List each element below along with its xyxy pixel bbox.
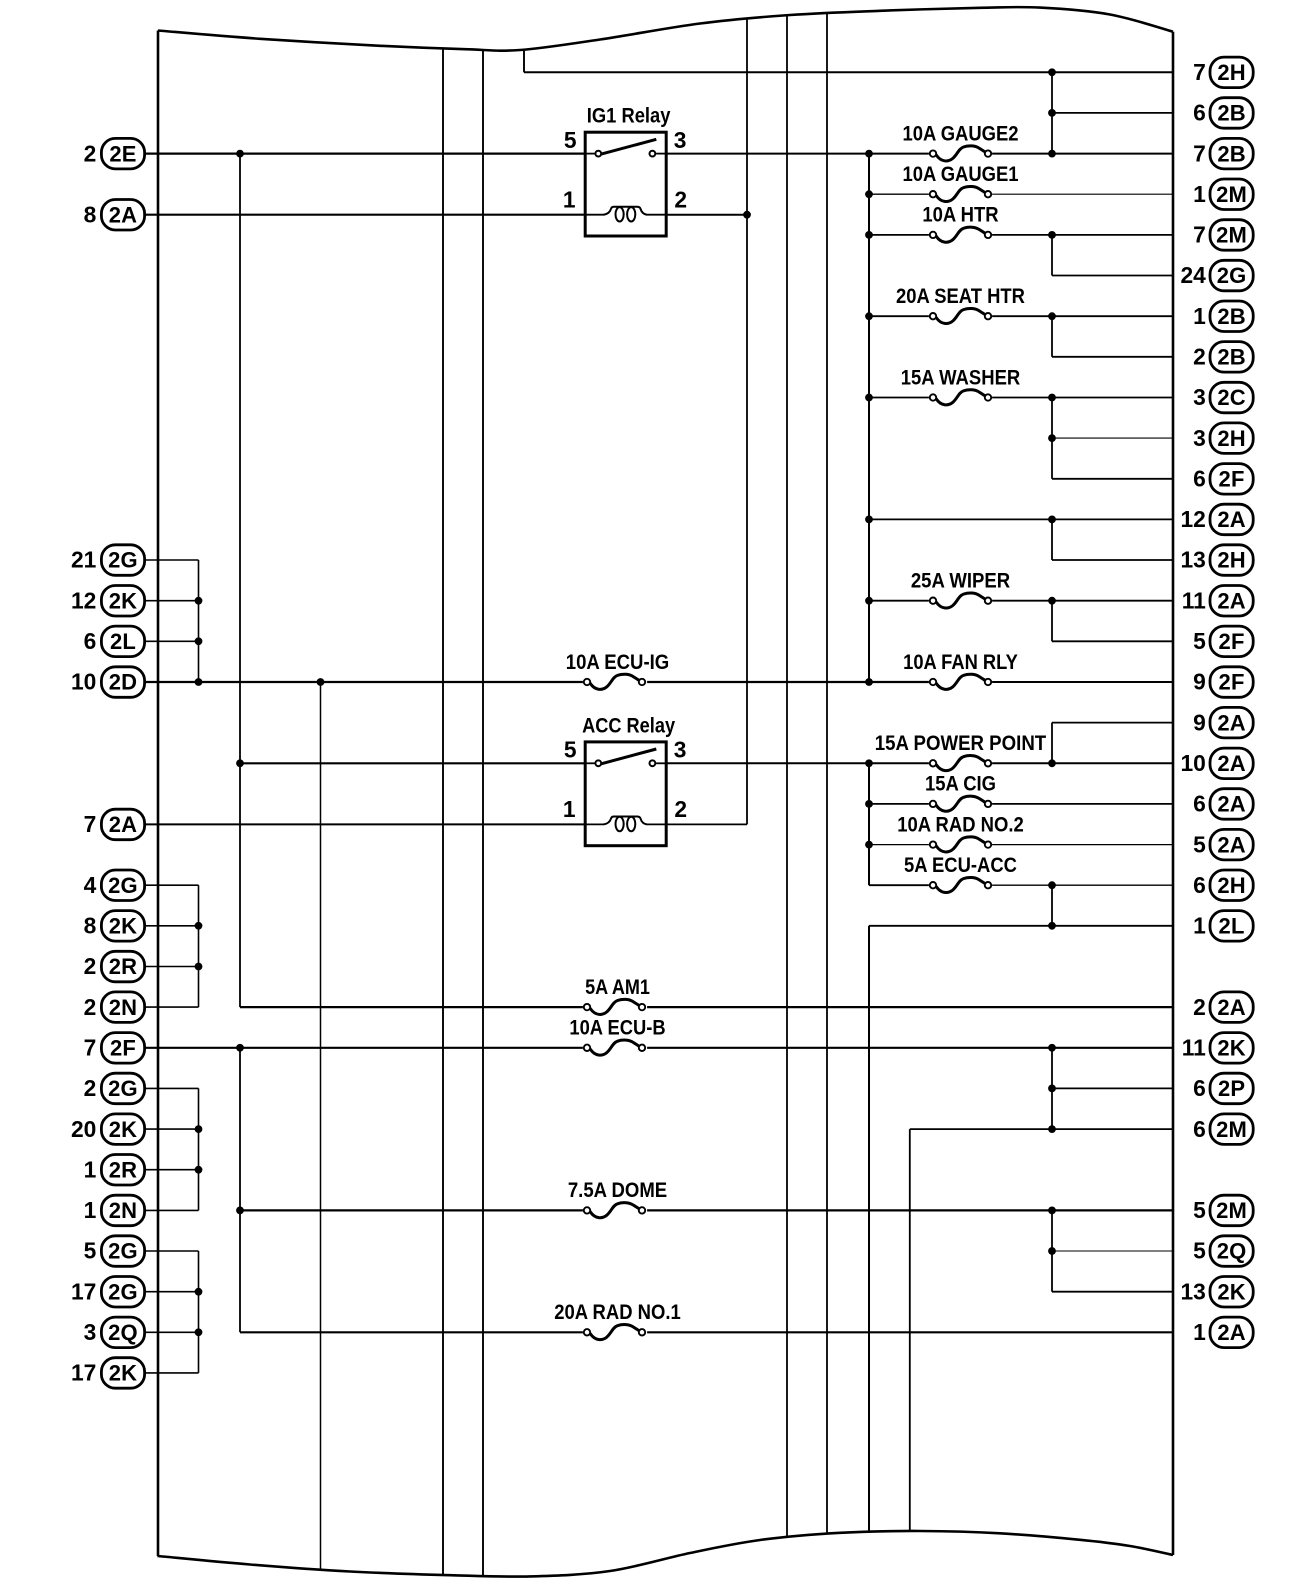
svg-text:13: 13 bbox=[1180, 547, 1205, 573]
junction 12 2A feed bbox=[865, 516, 873, 524]
relay ACC U2 bbox=[563, 713, 687, 845]
connector 1 2L right bbox=[1193, 911, 1253, 942]
svg-text:8: 8 bbox=[84, 201, 97, 227]
wire right bracket 9 2A/10 2A bbox=[1051, 723, 1053, 764]
fuse 20A SEAT HTR bbox=[896, 284, 1025, 324]
wire row 5 2F bbox=[1052, 640, 1173, 642]
connector 11 2K right bbox=[1182, 1033, 1254, 1064]
wire stub 17 2G bbox=[145, 1291, 199, 1293]
wire ACC fuse feed bus x=869 bbox=[868, 763, 870, 885]
wire right bracket 7 2H/6 2B/7 2B bbox=[1051, 72, 1053, 153]
wire stub 20 2K bbox=[145, 1128, 199, 1130]
connector 9 2F right bbox=[1193, 667, 1253, 698]
wire 1 2L off-page drop x=869 bbox=[868, 926, 870, 1532]
svg-text:17: 17 bbox=[71, 1360, 96, 1386]
connector 13 2K right bbox=[1180, 1277, 1253, 1308]
wire stub 2 2R bbox=[145, 966, 199, 968]
wire pass-through bus x=443 bbox=[442, 49, 444, 1576]
svg-text:5A AM1: 5A AM1 bbox=[585, 975, 650, 999]
junction 2E row / battery bus bbox=[236, 150, 244, 158]
junction 20 2K bracket bbox=[195, 1125, 203, 1133]
wire right bracket 7 2M/24 2G bbox=[1051, 235, 1053, 276]
connector 10 2A right bbox=[1180, 748, 1253, 779]
wire row 7 2A to ACC relay pin 1 bbox=[145, 823, 586, 825]
wire relay coil return bus x=747 bbox=[746, 18, 748, 824]
junction ECU-B feed tap bbox=[236, 1044, 244, 1052]
wire feed to 10A RAD NO.2 fuse bbox=[869, 844, 929, 846]
connector 1 2M right bbox=[1193, 179, 1253, 210]
svg-text:6: 6 bbox=[1193, 466, 1206, 492]
connector 5 2F right bbox=[1193, 626, 1253, 657]
junction 5 2Q row bbox=[1048, 1247, 1056, 1255]
wire feed drop x=524 for 7 2H row bbox=[523, 50, 525, 73]
svg-text:9: 9 bbox=[1193, 669, 1206, 695]
junction 3 2H row bbox=[1048, 434, 1056, 442]
svg-text:6: 6 bbox=[1193, 100, 1206, 126]
svg-text:20A SEAT HTR: 20A SEAT HTR bbox=[896, 284, 1025, 308]
wire row 7 2H bbox=[524, 71, 1173, 73]
svg-text:13: 13 bbox=[1180, 1278, 1205, 1304]
wire row 3 2H bbox=[1052, 437, 1173, 439]
svg-text:1: 1 bbox=[1193, 913, 1206, 939]
connector 1 2N left bbox=[84, 1195, 145, 1226]
svg-text:2G: 2G bbox=[108, 548, 138, 573]
svg-text:12: 12 bbox=[71, 587, 96, 613]
junction 1 2B row bbox=[1048, 312, 1056, 320]
svg-text:3: 3 bbox=[674, 127, 687, 153]
connector 1 2A right bbox=[1193, 1317, 1253, 1348]
wire 6 2M off-page drop x=910 bbox=[909, 1129, 911, 1531]
svg-text:2M: 2M bbox=[1216, 223, 1247, 248]
svg-text:2H: 2H bbox=[1217, 873, 1246, 898]
junction 6 2P row bbox=[1048, 1085, 1056, 1093]
relay IG1 U1 bbox=[563, 104, 687, 236]
wire IG1 pin 3 to 10A GAUGE2 fuse bbox=[666, 153, 929, 155]
wire 15A POWER POINT output to 10 2A bbox=[992, 762, 1173, 764]
wire left bracket 4 2G/8 2K/2 2R/2 2N bbox=[198, 885, 200, 1007]
connector 1 2R left bbox=[84, 1155, 145, 1186]
svg-text:10A FAN RLY: 10A FAN RLY bbox=[903, 650, 1018, 674]
wire left frame edge bbox=[157, 31, 160, 1557]
connector 8 2A left bbox=[84, 200, 145, 231]
wire feed to 25A WIPER fuse bbox=[869, 600, 929, 602]
wire row 6 2M bbox=[910, 1128, 1173, 1130]
svg-text:2: 2 bbox=[84, 994, 97, 1020]
svg-text:2G: 2G bbox=[108, 1239, 138, 1264]
wire ACC pin 3 to 15A POWER POINT fuse bbox=[666, 762, 929, 764]
wire feed to 20A SEAT HTR fuse bbox=[869, 315, 929, 317]
wire stub 3 2Q bbox=[145, 1331, 199, 1333]
svg-text:1: 1 bbox=[84, 1156, 97, 1182]
wire IG1 pin 2 to coil return bus bbox=[666, 214, 747, 216]
wire row 6 2B bbox=[1052, 112, 1173, 114]
junction 17 2G bracket bbox=[195, 1288, 203, 1296]
junction 6 2L bracket bbox=[195, 637, 203, 645]
svg-text:2A: 2A bbox=[1217, 832, 1246, 857]
svg-text:21: 21 bbox=[71, 547, 97, 573]
svg-text:5: 5 bbox=[84, 1238, 97, 1264]
fuse 15A WASHER bbox=[901, 365, 1021, 405]
junction 1 2L row bbox=[1048, 922, 1056, 930]
junction 12 2A row bbox=[1048, 516, 1056, 524]
wire 15A CIG output to 6 2A bbox=[992, 803, 1173, 805]
svg-text:2K: 2K bbox=[1217, 1279, 1246, 1304]
svg-text:1: 1 bbox=[84, 1197, 97, 1223]
svg-text:2E: 2E bbox=[109, 141, 136, 166]
junction DOME feed tap bbox=[236, 1207, 244, 1215]
svg-text:5A ECU-ACC: 5A ECU-ACC bbox=[904, 853, 1017, 877]
svg-text:1: 1 bbox=[1193, 1319, 1206, 1345]
wire top wavy border bbox=[158, 7, 1173, 51]
fuse 15A CIG bbox=[925, 772, 996, 812]
svg-text:7.5A DOME: 7.5A DOME bbox=[568, 1178, 667, 1202]
connector 3 2Q left bbox=[84, 1317, 145, 1348]
svg-text:10A HTR: 10A HTR bbox=[922, 203, 999, 227]
svg-text:7: 7 bbox=[84, 1035, 97, 1061]
wire row 12 2A bbox=[869, 518, 1173, 520]
wire 10A FAN RLY output to 9 2F bbox=[992, 681, 1173, 683]
svg-text:2F: 2F bbox=[1219, 629, 1245, 654]
svg-text:2R: 2R bbox=[109, 954, 138, 979]
svg-text:2L: 2L bbox=[1219, 914, 1245, 939]
junction 6 2B row bbox=[1048, 109, 1056, 117]
svg-text:2A: 2A bbox=[1217, 507, 1246, 532]
connector 2 2B right bbox=[1193, 342, 1253, 373]
connector 12 2A right bbox=[1180, 504, 1253, 535]
svg-text:7: 7 bbox=[1193, 59, 1206, 85]
junction 10 2D bracket bbox=[195, 678, 203, 686]
wire row 2 2E to IG1 relay pin 5 bbox=[145, 153, 586, 155]
wire right bracket 12 2A/13 2H bbox=[1051, 519, 1053, 560]
wire battery feed to 20A RAD NO.1 fuse bbox=[240, 1331, 583, 1333]
wire row 8 2A to IG1 relay pin 1 bbox=[145, 214, 586, 216]
svg-text:10A GAUGE2: 10A GAUGE2 bbox=[902, 121, 1018, 145]
wire bottom wavy border bbox=[158, 1531, 1174, 1577]
connector 7 2F left bbox=[84, 1033, 145, 1064]
connector 3 2C right bbox=[1193, 382, 1253, 413]
svg-text:2M: 2M bbox=[1216, 1117, 1247, 1142]
svg-text:2F: 2F bbox=[110, 1036, 136, 1061]
svg-text:2R: 2R bbox=[109, 1157, 138, 1182]
connector 7 2M right bbox=[1193, 220, 1253, 251]
svg-text:4: 4 bbox=[84, 872, 97, 898]
wire 10A GAUGE2 output to 7 2B bbox=[992, 153, 1173, 155]
junction 10 2A row bbox=[1048, 759, 1056, 767]
wire ACC pin 2 to coil return bus bbox=[666, 823, 747, 825]
fuse 15A POWER POINT bbox=[875, 731, 1046, 771]
junction WIPER feed bbox=[865, 597, 873, 605]
wire battery bus x=240 lower bbox=[239, 1048, 241, 1333]
svg-text:2G: 2G bbox=[108, 1076, 138, 1101]
wire row 1 2L bbox=[869, 925, 1173, 927]
svg-text:2: 2 bbox=[84, 953, 97, 979]
wire left bracket 2 2G/20 2K/1 2R/1 2N bbox=[198, 1088, 200, 1210]
svg-text:8: 8 bbox=[84, 913, 97, 939]
wire feed to 15A CIG fuse bbox=[869, 803, 929, 805]
wire stub 12 2K bbox=[145, 600, 199, 602]
svg-text:3: 3 bbox=[1193, 425, 1206, 451]
svg-text:6: 6 bbox=[1193, 791, 1206, 817]
svg-text:9: 9 bbox=[1193, 709, 1206, 735]
svg-text:20: 20 bbox=[71, 1116, 96, 1142]
svg-text:2G: 2G bbox=[1217, 263, 1247, 288]
junction SEAT HTR feed bbox=[865, 312, 873, 320]
connector 2 2G left bbox=[84, 1073, 145, 1104]
connector 7 2B right bbox=[1193, 138, 1253, 169]
junction 1 2R bracket bbox=[195, 1166, 203, 1174]
wire pass-through bus x=827 bbox=[826, 13, 828, 1534]
junction 7 2M row bbox=[1048, 231, 1056, 239]
svg-text:2P: 2P bbox=[1218, 1076, 1245, 1101]
svg-text:20A RAD NO.1: 20A RAD NO.1 bbox=[554, 1300, 681, 1324]
connector 10 2D left bbox=[71, 667, 145, 698]
fuse 20A RAD NO.1 bbox=[554, 1300, 681, 1340]
wire 10A HTR output to 7 2M bbox=[992, 234, 1173, 236]
wire feed to 15A WASHER fuse bbox=[869, 397, 929, 399]
connector 6 2H right bbox=[1193, 870, 1253, 901]
junction 3 2Q bracket bbox=[195, 1328, 203, 1336]
connector 5 2M right bbox=[1193, 1195, 1253, 1226]
wire stub 21 2G bbox=[145, 559, 199, 561]
wire stub 5 2G bbox=[145, 1250, 199, 1252]
svg-text:2H: 2H bbox=[1217, 60, 1246, 85]
wire row 9 2A bbox=[1052, 722, 1173, 724]
svg-text:2A: 2A bbox=[109, 812, 138, 837]
svg-text:2: 2 bbox=[674, 796, 687, 822]
connector 11 2A right bbox=[1182, 586, 1254, 617]
wire left bracket 21 2G/12 2K/6 2L/10 2D bbox=[198, 560, 200, 682]
svg-text:IG1 Relay: IG1 Relay bbox=[587, 104, 671, 128]
junction IG bus tap bbox=[317, 678, 325, 686]
svg-text:10: 10 bbox=[71, 669, 96, 695]
wire battery feed to ACC relay pin 5 bbox=[240, 762, 585, 764]
svg-text:2: 2 bbox=[84, 1075, 97, 1101]
wire battery bus x=240 upper bbox=[239, 154, 241, 1008]
fuse 7.5A DOME bbox=[568, 1178, 667, 1218]
svg-text:7: 7 bbox=[1193, 222, 1206, 248]
junction fuse bus bottom bbox=[865, 678, 873, 686]
svg-text:6: 6 bbox=[1193, 872, 1206, 898]
fuse 10A FAN RLY bbox=[903, 650, 1018, 690]
junction HTR feed bbox=[865, 231, 873, 239]
svg-text:2A: 2A bbox=[1217, 1320, 1246, 1345]
connector 24 2G right bbox=[1180, 260, 1253, 291]
wire pass-through bus x=483 bbox=[482, 50, 484, 1576]
svg-text:2G: 2G bbox=[108, 873, 138, 898]
svg-text:2F: 2F bbox=[1219, 670, 1245, 695]
connector 7 2H right bbox=[1193, 57, 1253, 88]
wire IG bus x=320 to off-page bbox=[320, 682, 322, 1570]
svg-text:2: 2 bbox=[84, 140, 97, 166]
svg-text:2N: 2N bbox=[109, 1198, 138, 1223]
svg-text:11: 11 bbox=[1182, 587, 1206, 613]
svg-text:10A GAUGE1: 10A GAUGE1 bbox=[902, 162, 1018, 186]
svg-text:2Q: 2Q bbox=[1217, 1239, 1247, 1264]
svg-text:24: 24 bbox=[1180, 262, 1206, 288]
svg-text:1: 1 bbox=[563, 187, 576, 213]
wire right bracket 11 2A/5 2F bbox=[1051, 601, 1053, 642]
svg-text:2A: 2A bbox=[1217, 588, 1246, 613]
junction 3 2C row bbox=[1048, 394, 1056, 402]
wire stub 2 2G bbox=[145, 1087, 199, 1089]
connector 6 2B right bbox=[1193, 98, 1253, 129]
junction 8 2K bracket bbox=[195, 922, 203, 930]
svg-text:2N: 2N bbox=[109, 995, 138, 1020]
svg-text:2A: 2A bbox=[1217, 995, 1246, 1020]
connector 2 2A right bbox=[1193, 992, 1253, 1023]
svg-text:15A WASHER: 15A WASHER bbox=[901, 365, 1021, 389]
connector 4 2G left bbox=[84, 870, 145, 901]
svg-text:2B: 2B bbox=[1217, 304, 1246, 329]
wire feed to 10A HTR fuse bbox=[869, 234, 929, 236]
connector 5 2G left bbox=[84, 1236, 145, 1267]
junction 11 2A row bbox=[1048, 597, 1056, 605]
svg-text:5: 5 bbox=[1193, 1197, 1206, 1223]
wire right bracket 5 2M/5 2Q/13 2K bbox=[1051, 1210, 1053, 1291]
svg-text:2M: 2M bbox=[1216, 1198, 1247, 1223]
wire stub 6 2L bbox=[145, 640, 199, 642]
wire feed to 10A GAUGE1 fuse bbox=[869, 193, 929, 195]
connector 2 2R left bbox=[84, 951, 145, 982]
svg-text:2A: 2A bbox=[1217, 792, 1246, 817]
connector 17 2K left bbox=[71, 1358, 145, 1389]
junction IG1 coil return bbox=[743, 211, 751, 219]
connector 5 2A right bbox=[1193, 829, 1253, 860]
wire 5A ECU-ACC output to 6 2H bbox=[992, 884, 1173, 886]
svg-text:2Q: 2Q bbox=[108, 1320, 138, 1345]
svg-text:2A: 2A bbox=[1217, 751, 1246, 776]
svg-text:10: 10 bbox=[1180, 750, 1205, 776]
connector 6 2F right bbox=[1193, 464, 1253, 495]
junction 7 2B row bbox=[1048, 150, 1056, 158]
fuse 10A RAD NO.2 bbox=[897, 812, 1024, 852]
svg-text:2K: 2K bbox=[109, 1361, 138, 1386]
svg-text:2: 2 bbox=[674, 187, 687, 213]
svg-text:2: 2 bbox=[1193, 994, 1206, 1020]
fuse 10A GAUGE2 bbox=[902, 121, 1018, 161]
wire row 2 2B bbox=[1052, 356, 1173, 358]
svg-text:25A WIPER: 25A WIPER bbox=[911, 569, 1011, 593]
junction 7 2H row bbox=[1048, 68, 1056, 76]
svg-text:10A RAD NO.2: 10A RAD NO.2 bbox=[897, 812, 1024, 836]
connector 12 2K left bbox=[71, 586, 145, 617]
svg-text:5: 5 bbox=[1193, 628, 1206, 654]
svg-text:2K: 2K bbox=[1217, 1036, 1246, 1061]
svg-text:2G: 2G bbox=[108, 1279, 138, 1304]
wire right bracket 11 2K/6 2P/6 2M bbox=[1051, 1048, 1053, 1129]
wire 7.5A DOME output to 5 2M bbox=[647, 1209, 1173, 1211]
wire row 5 2Q bbox=[1052, 1250, 1173, 1252]
svg-text:2H: 2H bbox=[1217, 426, 1246, 451]
junction ACC feed tap bbox=[236, 759, 244, 767]
fuse 10A GAUGE1 bbox=[902, 162, 1018, 202]
fuse 5A AM1 bbox=[584, 975, 650, 1015]
wire row 10 2D to 10A ECU-IG fuse bbox=[145, 681, 583, 683]
wire right bracket 3 2C/3 2H/6 2F bbox=[1051, 398, 1053, 479]
connector 17 2G left bbox=[71, 1277, 145, 1308]
wire 20A RAD NO.1 output to 1 2A bbox=[647, 1331, 1173, 1333]
connector 1 2B right bbox=[1193, 301, 1253, 332]
svg-text:2C: 2C bbox=[1217, 385, 1246, 410]
svg-text:6: 6 bbox=[84, 628, 97, 654]
svg-text:6: 6 bbox=[1193, 1116, 1206, 1142]
svg-text:2: 2 bbox=[1193, 344, 1206, 370]
junction 6 2M row bbox=[1048, 1125, 1056, 1133]
junction 5 2M row bbox=[1048, 1207, 1056, 1215]
wire left bracket 5 2G/17 2G/3 2Q/17 2K bbox=[198, 1251, 200, 1373]
connector 2 2E left bbox=[84, 138, 145, 169]
wire pass-through bus x=787 bbox=[786, 15, 788, 1537]
fuse 10A ECU-B bbox=[569, 1016, 665, 1056]
svg-text:5: 5 bbox=[1193, 831, 1206, 857]
wire battery feed to 5A AM1 fuse bbox=[240, 1006, 583, 1008]
svg-text:5: 5 bbox=[564, 737, 577, 763]
svg-text:15A POWER POINT: 15A POWER POINT bbox=[875, 731, 1046, 755]
svg-text:2L: 2L bbox=[110, 629, 136, 654]
junction RAD NO.2 feed bbox=[865, 841, 873, 849]
connector 9 2A right bbox=[1193, 707, 1253, 738]
wire battery feed to 7.5A DOME fuse bbox=[240, 1209, 583, 1211]
junction 11 2K row bbox=[1048, 1044, 1056, 1052]
wire 10A RAD NO.2 output to 5 2A bbox=[992, 844, 1173, 846]
connector 13 2H right bbox=[1180, 545, 1253, 576]
wire stub 1 2R bbox=[145, 1169, 199, 1171]
svg-text:7: 7 bbox=[1193, 140, 1206, 166]
svg-text:10A ECU-IG: 10A ECU-IG bbox=[566, 650, 670, 674]
wire feed to 5A ECU-ACC fuse bbox=[869, 884, 929, 886]
junction GAUGE1 feed bbox=[865, 190, 873, 198]
connector 6 2P right bbox=[1193, 1073, 1253, 1104]
svg-text:2B: 2B bbox=[1217, 345, 1246, 370]
wire row 7 2F to 10A ECU-B fuse bbox=[145, 1047, 583, 1049]
svg-text:1: 1 bbox=[563, 796, 576, 822]
connector 5 2Q right bbox=[1193, 1236, 1253, 1267]
svg-text:6: 6 bbox=[1193, 1075, 1206, 1101]
svg-text:2B: 2B bbox=[1217, 141, 1246, 166]
wire 25A WIPER output to 11 2A bbox=[992, 600, 1173, 602]
svg-text:3: 3 bbox=[674, 737, 687, 763]
wire stub 2 2N bbox=[145, 1006, 199, 1008]
svg-text:2A: 2A bbox=[109, 202, 138, 227]
svg-text:3: 3 bbox=[84, 1319, 97, 1345]
wire stub 4 2G bbox=[145, 884, 199, 886]
connector 6 2A right bbox=[1193, 789, 1253, 820]
connector 20 2K left bbox=[71, 1114, 145, 1145]
wire 10A ECU-IG output to FAN RLY fuse feed bbox=[647, 681, 929, 683]
wire row 6 2F bbox=[1052, 478, 1173, 480]
svg-text:11: 11 bbox=[1182, 1035, 1206, 1061]
wire right frame edge bbox=[1172, 32, 1175, 1555]
junction CIG feed bbox=[865, 800, 873, 808]
svg-text:10A ECU-B: 10A ECU-B bbox=[569, 1016, 665, 1040]
svg-text:2A: 2A bbox=[1217, 710, 1246, 735]
svg-text:5: 5 bbox=[564, 127, 577, 153]
connector 21 2G left bbox=[71, 545, 145, 576]
fuse 10A ECU-IG bbox=[566, 650, 670, 690]
wire 15A WASHER output to 3 2C bbox=[992, 397, 1173, 399]
wire row 6 2P bbox=[1052, 1087, 1173, 1089]
wire 5A AM1 output to 2 2A bbox=[647, 1006, 1173, 1008]
junction ACC fuse bus top bbox=[865, 759, 873, 767]
svg-text:2B: 2B bbox=[1217, 101, 1246, 126]
wire IG1 fuse feed bus x=869 bbox=[868, 154, 870, 682]
junction 12 2K bracket bbox=[195, 597, 203, 605]
svg-text:2K: 2K bbox=[109, 914, 138, 939]
svg-text:1: 1 bbox=[1193, 181, 1206, 207]
wire right bracket 6 2H/1 2L bbox=[1051, 885, 1053, 926]
svg-text:17: 17 bbox=[71, 1278, 96, 1304]
wire stub 1 2N bbox=[145, 1209, 199, 1211]
